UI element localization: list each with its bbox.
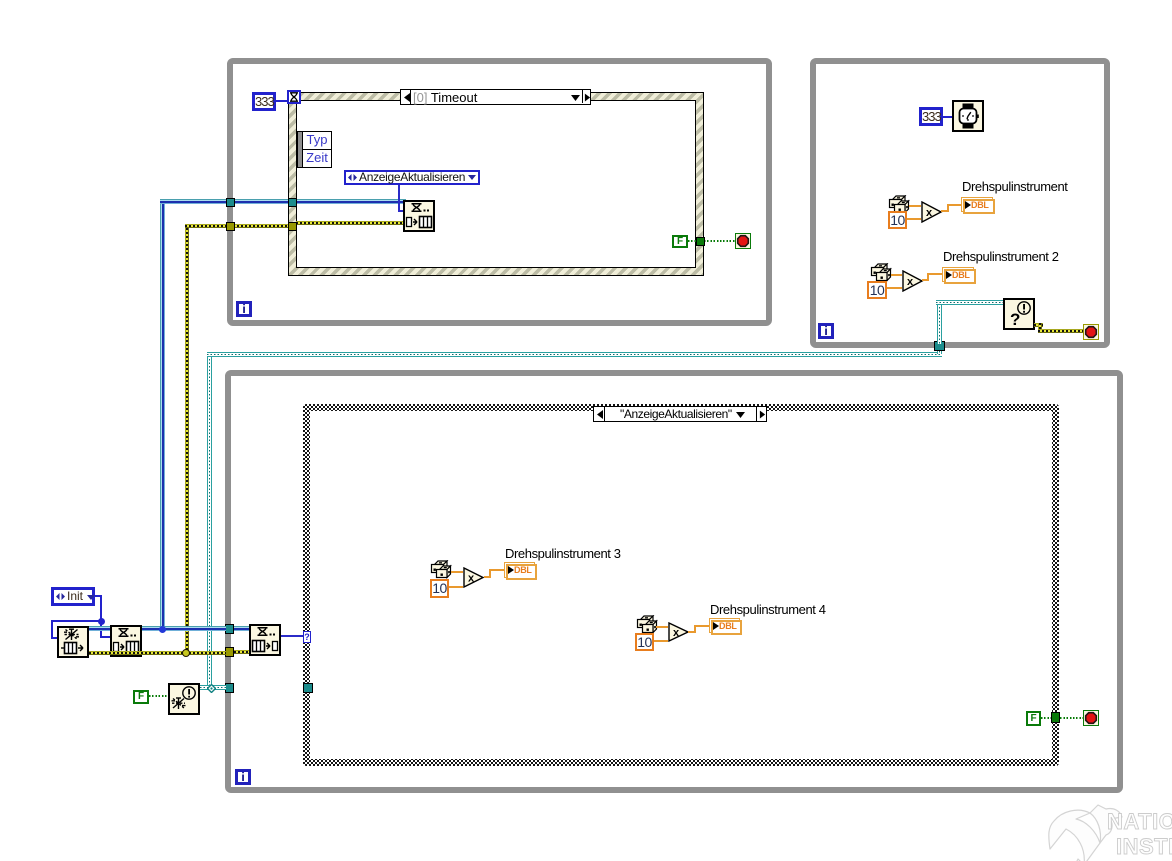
i terminal loop2 [818, 323, 834, 339]
tunnel: error on loop1 left border [226, 222, 235, 231]
stop terminal loop3 [1083, 710, 1099, 726]
numeric constant 10 (2) [867, 281, 887, 299]
wire: F to stop loop3 [1041, 717, 1083, 719]
DBL indicator 1 [961, 197, 993, 212]
wire: teal notifier vertical [207, 352, 212, 690]
event selector label [0] Timeout [400, 89, 591, 105]
junction diamond teal [207, 684, 216, 693]
obtain queue node [57, 626, 89, 658]
label Drehspulinstrument 3 [505, 546, 621, 561]
tunnel: error on event left border [288, 222, 297, 231]
wire: enum down to enqueue node [398, 185, 400, 212]
dice icon 3 [430, 560, 452, 580]
wire: F to stop terminal [688, 240, 735, 242]
numeric constant 333 (timeout) [252, 92, 276, 111]
while loop 1 (top-left) [227, 58, 772, 326]
tunnel: queue on event left border [288, 198, 297, 207]
while loop 2 (top-right) [810, 58, 1110, 348]
F constant (case) [1026, 711, 1041, 726]
event structure [288, 92, 704, 276]
junction dot queue wire [159, 626, 166, 633]
case structure [303, 404, 1059, 766]
case selector label [593, 406, 767, 422]
F constant (release) [133, 690, 149, 704]
wire: 333 to wait [943, 116, 952, 118]
svg-text:INSTRU: INSTRU [1116, 834, 1172, 859]
wires group 4 [656, 626, 668, 628]
wires group 3 [451, 571, 463, 573]
i terminal loop3 [235, 769, 251, 785]
wire: Init branch to obtain queue [51, 620, 102, 622]
tunnel: teal on loop2 bottom border [934, 341, 945, 351]
case selector ? terminal [303, 631, 311, 643]
wire: queue inside event to enqueue node [296, 199, 406, 204]
dice icon 4 [636, 615, 658, 635]
SECTION: watermark [1040, 798, 1172, 861]
numeric constant 333 (wait) [919, 107, 943, 126]
enqueue element node (left) [110, 625, 142, 657]
svg-text:NATIO: NATIO [1107, 809, 1172, 834]
wire: error inside event to enqueue node [296, 221, 406, 225]
wait (ms) watch icon [952, 100, 984, 132]
wire: error from status to stop [1034, 323, 1043, 327]
wire: 333 to hourglass [276, 100, 288, 102]
enum constant AnzeigeAktualisieren [344, 170, 480, 185]
release queue node [168, 683, 200, 715]
DBL indicator 4 [709, 618, 740, 633]
multiply node 1 [921, 201, 943, 223]
i terminal loop1 [236, 301, 252, 317]
label Drehspulinstrument 2 [943, 249, 1059, 264]
DBL indicator 2 [942, 267, 974, 282]
stop terminal loop2 [1083, 324, 1099, 340]
svg-text:?: ? [1010, 310, 1020, 328]
dice icon 2 [870, 263, 892, 283]
dice icon 1 [888, 195, 910, 215]
svg-text:x: x [907, 276, 914, 288]
dequeue element node [249, 624, 281, 656]
multiply node 3 [463, 567, 485, 588]
DBL indicator 3 [504, 562, 535, 578]
wire: error cluster vertical up to top-left loop [185, 224, 189, 654]
wire: error from obtain to enqueue to loop3 [89, 651, 226, 655]
wire: F to release [149, 695, 168, 697]
get queue status node [1003, 298, 1035, 330]
numeric constant 10 (3) [430, 579, 449, 598]
wire: dequeue to case selector [281, 635, 303, 637]
tunnel: green on case right border [1051, 712, 1060, 723]
multiply node 4 [668, 622, 690, 642]
stop terminal loop1 [735, 233, 751, 249]
F constant (event) [672, 235, 688, 248]
tunnel: teal on case left border [303, 683, 313, 693]
enqueue element node (in event) [403, 200, 435, 232]
svg-text:x: x [673, 627, 680, 639]
wire: error cluster horizontal into event structure [185, 224, 404, 228]
multiply node 2 [902, 270, 924, 292]
enum constant Init [51, 587, 95, 606]
wire: Init out [95, 595, 102, 597]
while loop 3 (bottom) [225, 370, 1123, 793]
svg-text:x: x [926, 207, 933, 219]
teal wire inside loop2 to status node [937, 300, 942, 344]
wire: teal from release to junction [200, 685, 226, 690]
numeric constant 10 (4) [635, 633, 654, 651]
svg-text:x: x [468, 573, 475, 585]
tunnel: queue on loop1 left border [226, 198, 235, 207]
tunnel: teal on loop3 left border [225, 683, 234, 693]
tunnel: error on loop3 left border [225, 647, 234, 657]
wire: queue refnum vertical from obtain queue up to top-left loop [160, 199, 165, 631]
junction dot init wire [98, 618, 105, 625]
wires group 1 [909, 205, 921, 207]
label Drehspulinstrument 4 [710, 602, 826, 617]
event data node Typ/Zeit [297, 131, 303, 168]
event timeout hourglass terminal [287, 90, 301, 104]
junction ring error wire [182, 649, 190, 657]
tunnel: green on event right border [696, 237, 705, 246]
wire: queue from enqueue to loop3 [142, 626, 226, 631]
label Drehspulinstrument [962, 179, 1068, 194]
numeric constant 10 (1) [888, 211, 907, 229]
wire: teal notifier horizontal long run [207, 352, 942, 357]
wire: queue refnum horizontal into event structure [160, 199, 404, 204]
wire: teal short riser into top-right loop tunnel [937, 344, 942, 354]
wires from tunnels to dequeue [234, 626, 249, 631]
tunnel: queue on loop3 left border [225, 624, 234, 634]
wires group 2 [891, 274, 902, 276]
wire: queue between obtain and enqueue [89, 626, 110, 631]
